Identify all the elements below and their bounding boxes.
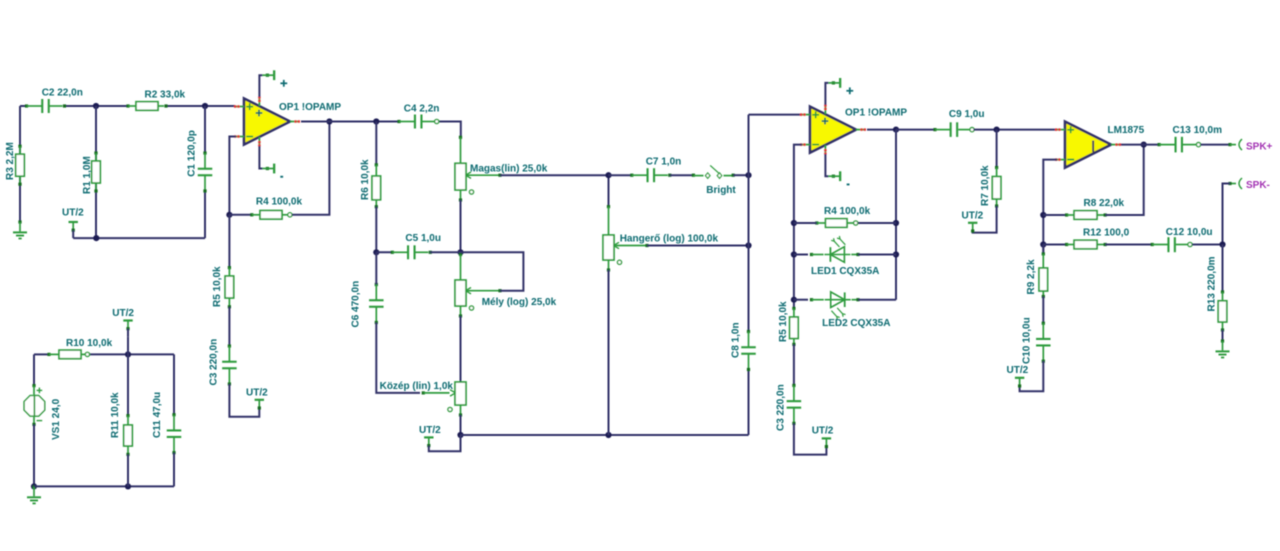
resistor R2 [126,104,129,107]
op-amp U3 LM1875 [1065,122,1111,168]
LED1 arrows [834,241,839,247]
svg-text:C8 1,0n: C8 1,0n [731,322,742,358]
node fb2d [893,220,899,226]
power - OP2 [825,154,828,176]
node out3 [1141,142,1147,148]
wire signal right rail [748,115,750,332]
wire C6 upper [375,252,377,284]
svg-text:Hangerő (log) 100,0k: Hangerő (log) 100,0k [620,234,719,245]
node fb2a [791,220,797,226]
node fb2c [791,297,797,303]
svg-text:UT/2: UT/2 [962,210,984,221]
wire R13 to gnd [1222,330,1224,341]
svg-text:UT/2: UT/2 [112,308,134,319]
node top-C1 [202,103,208,109]
node C7 right [745,172,751,178]
resistor R8 [1043,214,1066,216]
op-amp OP1 first stage [244,99,290,145]
wire C1 branch [204,106,206,153]
pot P2 Hangero volume [607,205,610,208]
svg-text:C6 470,0n: C6 470,0n [351,281,362,328]
node R1-bottom [93,235,99,241]
svg-text:C10 10,0u: C10 10,0u [1022,317,1033,364]
wire OP2 inverting [794,145,802,309]
node top-R1 [93,103,99,109]
resistor R1 [94,151,97,154]
wire Magas bottom [460,190,462,200]
svg-text:C13 10,0m: C13 10,0m [1173,125,1223,136]
wire R5 chain stage1 [228,215,230,268]
LED1 [794,254,808,256]
wire R1 branch [95,106,97,238]
svg-text:OP1 !OPAMP: OP1 !OPAMP [845,107,907,118]
wire VS1 to gnd bus [33,424,35,486]
svg-text:R9 2,2k: R9 2,2k [1026,259,1037,294]
wire R9-C10 [1042,297,1044,325]
wire Mely bottom [460,306,462,316]
svg-text:R2 33,0k: R2 33,0k [145,90,186,101]
node C12 right [1219,241,1225,247]
wire R13 branch [1222,245,1224,292]
pot P1 Magas treble [459,136,462,139]
resistor R7 [995,166,998,169]
capacitor C1 [203,151,206,154]
svg-text:Mély (log) 25,0k: Mély (log) 25,0k [482,297,557,308]
wire volume top [608,175,610,207]
wire OP2 output [867,129,896,131]
ground GND3 [1221,339,1224,342]
wire OP2 fb rail right [895,130,897,300]
wire bottom bus [461,434,749,436]
svg-text:UT/2: UT/2 [812,426,834,437]
op-amp OP2 second stage [810,107,856,153]
svg-text:C9 1,0u: C9 1,0u [949,109,985,120]
svg-text:R8 22,0k: R8 22,0k [1084,198,1125,209]
node fb2b [791,251,797,257]
svg-text:UT/2: UT/2 [419,425,441,436]
node wiper right [745,242,751,248]
svg-text:LED1 CQX35A: LED1 CQX35A [811,266,879,277]
wire R11 branch [127,354,129,415]
wire C3 to UT2 stage2 [794,423,827,454]
capacitor C6 [375,283,378,286]
wire Kozep bottom [460,405,462,415]
resistor R9 [1042,252,1045,255]
resistor R12 [1043,244,1066,246]
svg-text:R7 10,0k: R7 10,0k [980,165,991,206]
LED2 [794,299,808,301]
resistor R13 [1221,290,1224,293]
capacitor C3 stage1 [228,344,231,347]
capacitor C12 [1151,243,1154,246]
wire OP1 inverting feedback [229,137,236,215]
capacitor C5 [376,251,393,253]
wire C9 to LM [974,129,1057,131]
resistor R4 stage2 [815,221,818,224]
terminal SPK- [1239,178,1242,189]
capacitor C13 [1158,143,1161,146]
svg-text:UT/2: UT/2 [62,208,84,219]
svg-text:R12 100,0: R12 100,0 [1083,227,1130,238]
source VS1 [32,384,35,387]
wire left rail [19,106,21,222]
svg-text:R11 10,0k: R11 10,0k [110,392,121,438]
svg-text:OP1 !OPAMP: OP1 !OPAMP [279,102,341,113]
svg-text:R5 10,0k: R5 10,0k [212,266,223,307]
svg-text:R10 10,0k: R10 10,0k [66,338,113,349]
svg-text:C3 220,0n: C3 220,0n [776,384,787,431]
wire C3 to UT2 stage1 [229,384,259,417]
wire C6 lower to Kozep wiper [376,323,420,393]
wire SPK- down [1223,184,1231,245]
wire Mely wiper loop [466,290,501,292]
svg-text:C7 1,0n: C7 1,0n [646,157,682,168]
svg-text:C2 22,0n: C2 22,0n [42,88,83,99]
wire R7 to UT2 [973,206,997,233]
wire R4 to output [292,122,329,215]
wire C13 to SPK+ [1201,144,1231,146]
node fb2e [893,251,899,257]
node R11 bottom [125,483,131,489]
node gnd bus left [31,483,37,489]
svg-text:R3 2,2M: R3 2,2M [5,142,16,180]
svg-text:R13 220,0m: R13 220,0m [1207,256,1218,311]
svg-text:R4 100,0k: R4 100,0k [256,197,303,208]
wire C10 to UT2 [1020,361,1044,391]
wire Magas wiper [466,174,501,176]
wire gnd bus [34,485,174,487]
pot P4 Kozep mid [422,391,425,394]
wire to OP2 +input [749,114,802,116]
svg-text:C1 120,0p: C1 120,0p [186,130,197,177]
svg-text:R4 100,0k: R4 100,0k [824,206,871,217]
resistor R6 [375,163,378,166]
node C5 right [457,249,463,255]
wire VS1 branch [33,354,35,385]
wire R5-C3 stage2 [793,344,795,385]
capacitor C7 [609,174,633,176]
svg-text:Bright: Bright [706,185,736,196]
wire R7 branch [996,130,998,168]
capacitor C4 [397,120,400,123]
node bus left [457,432,463,438]
power + OP1 [259,75,262,97]
power - OP1 [259,146,262,169]
resistor R5 stage1 [228,266,231,269]
ground GND1 [18,220,21,223]
wire LM output row [1121,144,1159,146]
svg-text:C4 2,2n: C4 2,2n [404,103,440,114]
pot P3 Mely bass [459,253,462,256]
node R6 top [373,118,379,124]
wire R6 branch [375,122,377,165]
svg-text:R1 1,0M: R1 1,0M [82,156,93,194]
node C5 left [373,249,379,255]
node R8 left [1040,212,1046,218]
svg-text:UT/2: UT/2 [1007,365,1029,376]
svg-text:R5 10,0k: R5 10,0k [778,301,789,342]
resistor R4 stage1 [229,214,251,216]
node out2 [893,127,899,133]
wire R5-C3 stage1 [228,307,230,346]
svg-text:LED2 CQX35A: LED2 CQX35A [822,318,890,329]
node fb1 [226,212,232,218]
capacitor C10 [1042,322,1045,325]
svg-text:R6 10,0k: R6 10,0k [360,159,371,200]
svg-text:C12 10,0u: C12 10,0u [1166,227,1213,238]
svg-text:SPK-: SPK- [1246,180,1270,191]
node pot bottom bus [605,432,611,438]
wire OP1 output row [301,121,399,123]
capacitor C3 stage2 [792,384,795,387]
resistor R11 [126,414,129,417]
node R10 right [125,351,131,357]
svg-text:C5 1,0u: C5 1,0u [405,233,441,244]
power + OP2 [825,83,828,105]
svg-text:VS1 24,0: VS1 24,0 [51,398,62,440]
node R7 top [994,127,1000,133]
capacitor C2 [25,104,28,107]
node C7 left [605,172,611,178]
svg-text:Magas(lin) 25,0k: Magas(lin) 25,0k [470,164,548,175]
wire OP2 out to C9 [896,129,934,131]
wire R9 branch [1042,245,1044,254]
wire bottom return stage1 [73,237,205,239]
wire top input row [20,105,27,107]
wire volume wiper [614,245,647,247]
wire C7 to switch [670,174,694,176]
svg-text:UT/2: UT/2 [246,388,268,399]
svg-text:Közép (lin) 1,0k: Közép (lin) 1,0k [380,381,454,392]
switch SW1 Bright [692,174,695,177]
LED2 arrows [837,308,842,314]
node R12 left [1040,241,1046,247]
ground GND2 [32,485,35,488]
capacitor C11 [172,413,175,416]
capacitor C9 [933,128,936,131]
svg-text:C11 47,0u: C11 47,0u [152,392,163,438]
wire R6 to C5 node [375,207,377,253]
wire volume bottom [608,260,610,270]
svg-text:SPK+: SPK+ [1246,141,1273,152]
terminal SPK+ [1239,139,1242,150]
resistor R5 stage2 [792,307,795,310]
resistor R3 [18,145,21,148]
svg-text:C3 220,0n: C3 220,0n [209,339,220,386]
wire R10 row [34,353,49,355]
wire C11 branch [173,354,175,415]
resistor R10 [47,353,50,356]
svg-text:LM1875: LM1875 [1108,125,1145,136]
wire LM inverting [1043,160,1057,254]
node out1 [326,118,332,124]
capacitor C8 [747,330,750,333]
